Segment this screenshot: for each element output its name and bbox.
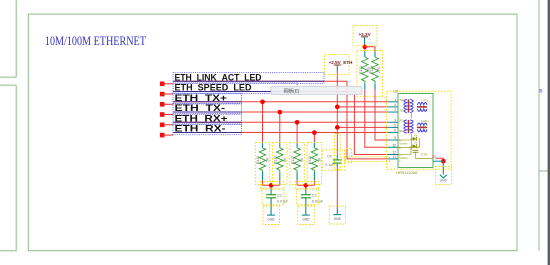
capacitor C4 xyxy=(325,155,342,167)
LED1 green xyxy=(413,134,418,141)
wire pin4 center tap xyxy=(337,106,388,108)
svg-text:剪断(E): 剪断(E) xyxy=(284,88,300,95)
ground G3 xyxy=(333,207,341,221)
selection box C4 xyxy=(322,150,344,170)
pin 3 xyxy=(388,121,398,123)
port pin ETH_LINK_ACT_LED xyxy=(160,82,165,87)
svg-text:R114: R114 xyxy=(370,66,374,74)
selection box GND G3 xyxy=(329,206,345,224)
port pin ETH_SPEED_LED xyxy=(160,92,165,97)
svg-text:U8: U8 xyxy=(394,90,399,94)
net label ETH_TX+ xyxy=(173,101,241,103)
svg-text:50: 50 xyxy=(266,158,270,162)
pin numbers xyxy=(392,98,435,159)
svg-text:270: 270 xyxy=(377,67,381,73)
neighbor sheet border left xyxy=(0,0,16,251)
junction +2.5V_ETH / pin4 xyxy=(335,105,340,110)
svg-text:10M/100M ETHERNET: 10M/100M ETHERNET xyxy=(45,33,146,48)
selection box wire fragment staircase xyxy=(346,149,352,164)
selection box +2.5V_ETH xyxy=(325,55,350,75)
wire +3.3V to resistors xyxy=(365,44,376,52)
pin 1 xyxy=(388,101,398,103)
wire R114 to pin9 xyxy=(375,89,388,140)
svg-text:10: 10 xyxy=(392,143,396,147)
port pin ETH_TX- xyxy=(160,112,165,117)
wire pin5 center tap xyxy=(337,126,388,128)
selection box GND G1 xyxy=(263,206,280,225)
svg-text:1 RX+: 1 RX+ xyxy=(421,119,429,123)
svg-text:50: 50 xyxy=(283,158,287,162)
svg-text:3: 3 xyxy=(394,118,396,122)
junction RX- / R118 xyxy=(312,130,317,135)
sheet border (main frame) xyxy=(28,14,517,251)
svg-text:9: 9 xyxy=(394,136,396,140)
selection box wire fragment near C4 xyxy=(335,134,341,170)
NETLABELS xyxy=(173,72,324,134)
wire resistor bottoms pair2 xyxy=(297,180,314,189)
capacitor C2 xyxy=(266,189,289,215)
junction C2 node xyxy=(269,183,274,188)
svg-text:0.01uF: 0.01uF xyxy=(277,200,289,204)
selection box wire pair1 xyxy=(261,181,284,189)
selection box GND G4 xyxy=(435,167,451,185)
internal capacitor to shield xyxy=(413,150,419,152)
svg-text:5: 5 xyxy=(394,124,396,128)
POWER xyxy=(329,32,372,72)
neighbor sheet border right xyxy=(539,0,550,251)
svg-text:R115: R115 xyxy=(256,156,260,164)
svg-text:R116: R116 xyxy=(274,156,278,164)
pin names xyxy=(399,98,429,163)
wire RX+ to R117 xyxy=(296,122,298,142)
pin 4 xyxy=(388,106,398,108)
selection box R117 xyxy=(290,142,304,184)
svg-text:L-: L- xyxy=(399,159,402,163)
junction C3 node xyxy=(303,183,308,188)
net label ETH_SPEED_LED xyxy=(173,91,297,93)
wire pin13 shield to ground xyxy=(436,158,444,161)
selection box wire pair2 xyxy=(295,181,318,189)
svg-text:TD-: TD- xyxy=(399,109,404,113)
svg-text:R118: R118 xyxy=(308,156,312,164)
CAPS xyxy=(266,155,342,216)
svg-text:0.1uF: 0.1uF xyxy=(325,163,335,167)
ground G4 xyxy=(440,161,448,182)
svg-text:C3: C3 xyxy=(312,194,317,198)
pin 12 xyxy=(388,154,398,156)
power flag +2.5V_ETH xyxy=(329,60,354,71)
svg-text:2: 2 xyxy=(394,108,396,112)
net label ETH_LINK_ACT_LED xyxy=(173,80,324,82)
selection box R116 xyxy=(273,142,287,184)
svg-text:GND: GND xyxy=(440,178,448,182)
wire ETH_SPEED_LED xyxy=(173,92,388,155)
resistor R113 xyxy=(359,51,371,89)
svg-text:50: 50 xyxy=(300,158,304,162)
svg-text:GND: GND xyxy=(302,218,310,222)
junction +2.5V_ETH / pin5 xyxy=(335,125,340,130)
transformer T1 (TX) xyxy=(404,99,427,112)
selection box wire pin11 feed xyxy=(345,157,390,162)
svg-text:C4: C4 xyxy=(327,155,332,159)
junction dots xyxy=(260,44,446,187)
svg-text:1 TX+: 1 TX+ xyxy=(421,98,429,102)
svg-text:HR911105A: HR911105A xyxy=(396,170,418,175)
selection box R115 xyxy=(255,142,269,184)
window edge dark band xyxy=(548,0,550,265)
power flag +3.3V xyxy=(359,32,372,44)
junction TX+ / R115 xyxy=(260,99,265,104)
net label ETH_RX+ xyxy=(173,121,241,123)
pin 5 xyxy=(388,126,398,128)
capacitor C3 xyxy=(301,189,324,215)
svg-text:ETH: ETH xyxy=(421,152,427,156)
RESISTORS xyxy=(256,51,381,180)
PORTS xyxy=(160,82,173,138)
wire ETH_RX- xyxy=(173,132,388,134)
wire +2.5V_ETH vertical xyxy=(336,71,338,155)
wire ETH_TX+ xyxy=(173,101,388,103)
resistor R116 xyxy=(274,142,287,180)
svg-text:ETH_RX-: ETH_RX- xyxy=(175,124,226,135)
svg-text:R117: R117 xyxy=(291,156,295,164)
selection box +3.3V xyxy=(353,26,377,46)
GNDS xyxy=(267,161,447,221)
junction RX+ / R117 xyxy=(295,120,300,125)
pin 13 xyxy=(433,160,443,162)
wire ETH_TX- xyxy=(173,111,388,113)
svg-text:12: 12 xyxy=(392,151,396,155)
svg-text:C2: C2 xyxy=(277,194,282,198)
svg-text:GND: GND xyxy=(267,218,275,222)
wire TX- to R116 xyxy=(279,112,281,142)
selection box U8 xyxy=(387,91,452,169)
wire TX+ to R115 xyxy=(262,102,264,143)
wire ETH_LINK_ACT_LED xyxy=(173,81,388,159)
YELLOWBOXES xyxy=(255,26,451,225)
resistor R118 xyxy=(308,142,321,180)
svg-text:0.01uF: 0.01uF xyxy=(312,200,324,204)
net label ETH_RX- xyxy=(173,132,241,134)
pin 9 xyxy=(388,139,398,141)
selection box R118 xyxy=(307,142,321,184)
svg-text:11: 11 xyxy=(393,155,397,159)
selection box GND G2 xyxy=(298,206,315,225)
selection box R113 R114 xyxy=(357,51,383,97)
resistor R115 xyxy=(256,142,269,180)
wire C4 to ground xyxy=(336,167,338,207)
pin stubs xyxy=(388,102,444,161)
ground G2 xyxy=(302,215,310,222)
net label ETH_TX- xyxy=(173,111,241,113)
pin 2 xyxy=(388,111,398,113)
ground G1 xyxy=(267,215,275,222)
selection box C3 xyxy=(297,189,319,205)
wire RX- to R118 xyxy=(313,133,315,143)
TITLE xyxy=(45,33,146,48)
svg-text:50: 50 xyxy=(317,158,321,162)
svg-text:6: 6 xyxy=(394,129,396,133)
context tooltip xyxy=(271,86,362,94)
svg-text:1: 1 xyxy=(394,98,396,102)
pin 6 xyxy=(388,132,398,134)
svg-text:+3.3V: +3.3V xyxy=(359,32,372,37)
connector U8 HR911105A body xyxy=(398,94,433,168)
selection box C2 xyxy=(262,189,284,205)
svg-text:GND: GND xyxy=(334,217,342,221)
pin 11 xyxy=(388,158,398,160)
pin 10 xyxy=(388,146,398,148)
transformer T2 (RX) xyxy=(404,120,427,133)
resistor R114 xyxy=(370,51,382,89)
port pin ETH_RX- xyxy=(160,133,165,138)
internal olive wiring xyxy=(398,113,433,158)
TOOLTIP xyxy=(271,86,362,94)
wire resistor bottoms pair1 xyxy=(263,180,280,189)
junction shield GND node xyxy=(441,159,446,164)
svg-text:R113: R113 xyxy=(359,66,363,74)
junction +3.3V node xyxy=(362,44,367,49)
port pin ETH_RX+ xyxy=(160,123,165,128)
resistor R117 xyxy=(291,142,304,180)
junction TX- / R116 xyxy=(277,110,282,115)
port pin ETH_TX+ xyxy=(160,102,165,107)
wire R113 to pin10 xyxy=(365,89,388,147)
LED2 yellow xyxy=(413,142,418,149)
svg-text:4: 4 xyxy=(394,103,396,107)
wire ETH_RX+ xyxy=(173,121,388,123)
RJ45 xyxy=(388,90,444,175)
